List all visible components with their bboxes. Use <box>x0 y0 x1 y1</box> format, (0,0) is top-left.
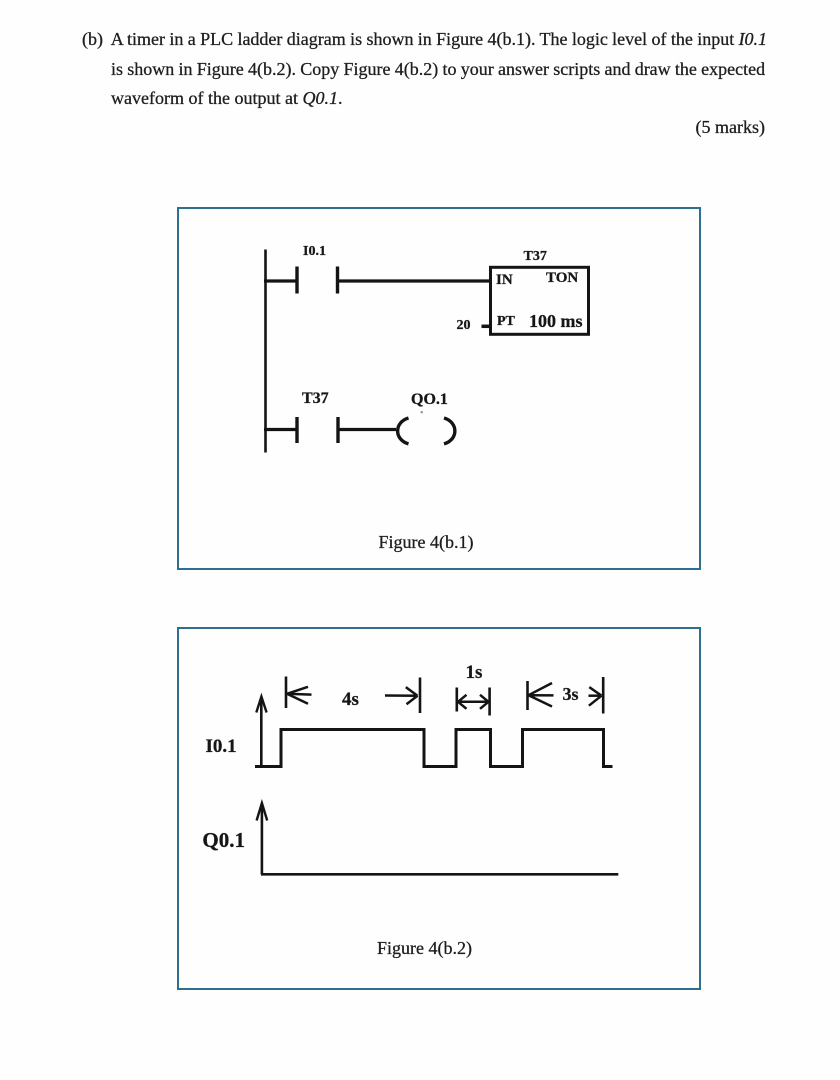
question paragraph line 3 <box>111 89 342 107</box>
coil QO.1 right arc <box>444 418 455 444</box>
label I0.1 contact rung1 <box>303 245 326 259</box>
label PT pin <box>497 315 515 329</box>
label QO.1 coil <box>411 392 448 408</box>
figure 4(b.2) blue frame <box>177 627 701 990</box>
label 20 preset value <box>457 319 471 333</box>
Q0.1 axis vertical arrow <box>257 803 268 875</box>
coil QO.1 left arc <box>398 418 409 444</box>
label IN pin <box>496 273 513 288</box>
label TON <box>546 271 578 286</box>
contact I0.1 right bar <box>336 267 339 294</box>
label 100 ms value <box>529 312 583 330</box>
figure 4(b.1) blue frame <box>177 207 701 570</box>
label T37 above timer box <box>524 250 547 264</box>
dimension bar at 4s right <box>419 678 422 714</box>
Q0.1 baseline <box>261 873 618 876</box>
dimension bar 3s left <box>526 681 529 710</box>
4s left arrow pointing left <box>287 687 312 704</box>
question paragraph line 1 <box>82 30 767 48</box>
label T37 contact rung2 <box>302 391 329 407</box>
wire rung1 contact to timer box <box>338 279 493 282</box>
label 4s <box>342 690 359 709</box>
marks <box>696 118 765 136</box>
I0.1 axis vertical arrow <box>256 697 266 768</box>
caption Figure 4(b.1) <box>379 533 474 551</box>
label 3s <box>563 685 579 703</box>
1s double arrow <box>458 695 489 709</box>
contact T37 right bar <box>336 417 339 443</box>
label I0.1 waveform <box>206 737 237 756</box>
left power rail <box>264 250 267 453</box>
3s left arrow pointing left <box>529 683 554 707</box>
question paragraph line 2 <box>111 60 765 78</box>
contact T37 left bar <box>295 417 298 443</box>
PT input dash from 20 <box>482 325 491 329</box>
label Q0.1 waveform <box>202 830 245 851</box>
artifact dot above coil <box>421 411 423 413</box>
I0.1 waveform trace <box>255 730 613 767</box>
caption Figure 4(b.2) <box>377 939 472 957</box>
3s right arrow pointing right <box>589 687 602 706</box>
dimension bar 3s right <box>602 677 605 714</box>
timer T37 TON box <box>491 267 589 334</box>
wire rung1 rail to contact <box>264 279 297 282</box>
label 1s <box>466 663 483 682</box>
wire rung2 rail to contact <box>264 428 297 431</box>
contact I0.1 left bar <box>295 267 298 294</box>
4s right arrow pointing right <box>385 687 418 704</box>
dimension bar 1s right <box>488 688 491 716</box>
wire rung2 contact to coil <box>338 428 396 431</box>
dimension bar at 4s left <box>285 677 288 709</box>
dimension bar 1s left <box>455 688 458 712</box>
